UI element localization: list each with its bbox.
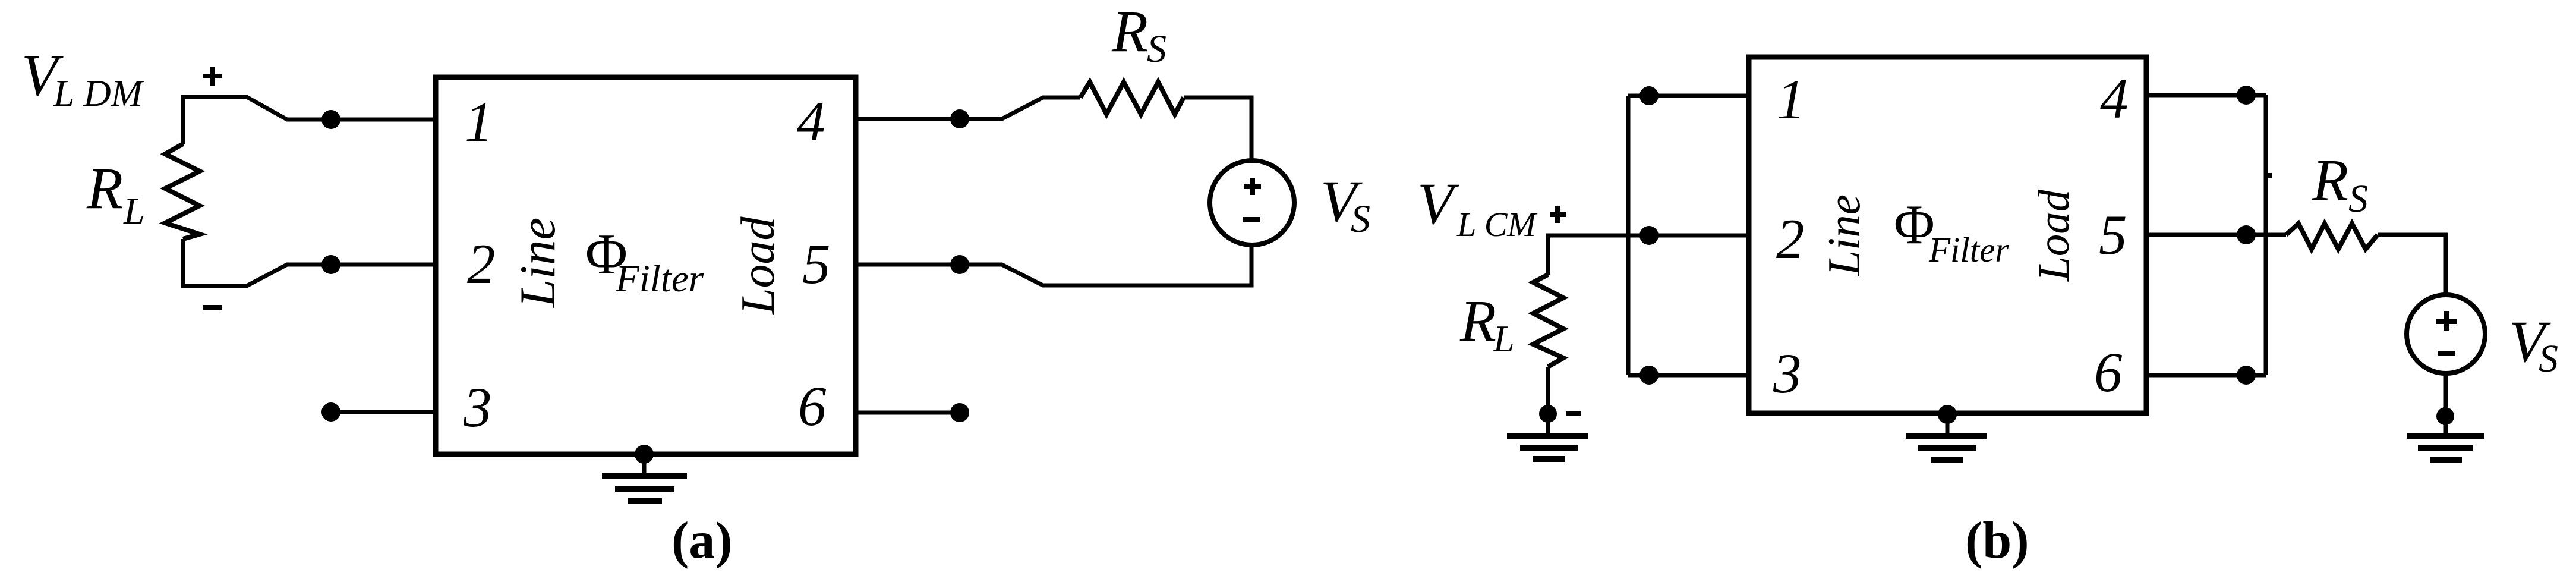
wire RS to VS top (a)	[1184, 97, 1251, 162]
svg-text:S: S	[2348, 177, 2368, 221]
ground dot VS (b)	[2436, 407, 2454, 425]
svg-text:1: 1	[1777, 68, 1805, 131]
junction dot pin 4 wire (a)	[950, 109, 969, 128]
svg-text:5: 5	[2099, 203, 2127, 266]
terminal dot pin 3 (a)	[321, 402, 340, 422]
minus sign load (a)	[203, 305, 222, 310]
junction dot pin 2 wire (b)	[1639, 226, 1659, 245]
terminal dot pin 6 (a)	[950, 403, 969, 422]
label RL (b)	[1459, 288, 1515, 360]
filter block (b)	[1749, 57, 2146, 413]
wire left bus (b)	[1626, 96, 1631, 375]
junction dot pin 2 wire (a)	[321, 255, 340, 274]
ground dot RL (b)	[1539, 405, 1557, 423]
junction dot pin 5 wire (b)	[2237, 225, 2256, 244]
wire VLCM node to pin 2 (b)	[1548, 235, 1749, 275]
svg-text:6: 6	[2094, 341, 2123, 404]
label Phi Filter (b)	[1894, 194, 2009, 269]
wire pin 1 (b)	[1628, 94, 1749, 98]
plus sign load (b)	[1550, 206, 1566, 223]
junction dot pin 6 wire (b)	[2237, 366, 2256, 385]
bus tick (b)	[2266, 173, 2272, 178]
svg-text:L: L	[123, 190, 145, 232]
wire pin 3 (b)	[1628, 373, 1749, 378]
svg-text:Load: Load	[2029, 189, 2079, 282]
svg-text:R: R	[1111, 0, 1148, 64]
svg-text:(b): (b)	[1965, 512, 2029, 570]
svg-text:L: L	[1493, 317, 1515, 360]
junction dot pin 3 wire (b)	[1639, 366, 1659, 385]
wire VS bottom to ground (b)	[2444, 373, 2448, 433]
ground of filter block (a)	[602, 445, 687, 501]
label RL (a)	[86, 155, 145, 232]
label VLCM	[1417, 171, 1537, 244]
label VS (a)	[1320, 168, 1370, 241]
svg-text:R: R	[1459, 288, 1496, 354]
svg-text:V: V	[1417, 171, 1459, 237]
ground VS (b)	[2407, 436, 2484, 460]
source VS (b)	[2407, 295, 2485, 373]
minus sign load (b)	[1566, 411, 1581, 416]
wire pin 5 to RS (b)	[2146, 233, 2286, 237]
wire pin 4 to RS (a)	[856, 97, 1080, 119]
source VS (a)	[1210, 161, 1294, 245]
wire VS bottom to pin 5 (a)	[856, 244, 1251, 285]
svg-text:S: S	[1351, 197, 1370, 241]
wire pin 6 (b)	[2146, 373, 2266, 378]
ground RL (b)	[1507, 436, 1588, 459]
ground of filter block (b)	[1906, 405, 1987, 460]
resistor RS (a)	[1080, 82, 1184, 114]
label Phi Filter (a)	[585, 222, 704, 300]
label RS (b)	[2312, 147, 2368, 221]
svg-text:Line: Line	[510, 218, 566, 308]
wire pin 3 stub (a)	[331, 410, 437, 414]
svg-text:2: 2	[467, 232, 496, 295]
svg-text:L DM: L DM	[53, 72, 145, 114]
svg-text:R: R	[2312, 147, 2348, 213]
svg-text:S: S	[1147, 27, 1166, 71]
svg-text:6: 6	[798, 375, 827, 438]
wire right bus (b)	[2264, 95, 2268, 375]
svg-text:3: 3	[463, 376, 492, 439]
svg-text:Filter: Filter	[1928, 230, 2009, 269]
wire RL bottom lead to pin 2 (a)	[183, 239, 437, 286]
junction dot pin 1 wire (a)	[321, 110, 340, 129]
junction dot pin 4 wire (b)	[2237, 86, 2256, 105]
svg-text:3: 3	[1773, 342, 1802, 405]
svg-text:Line: Line	[1818, 194, 1869, 276]
svg-text:2: 2	[1776, 207, 1805, 271]
svg-text:5: 5	[802, 232, 831, 295]
wire pin 6 stub (a)	[856, 411, 960, 415]
junction dot pin 5 wire (a)	[950, 255, 969, 274]
resistor RL (b)	[1533, 275, 1563, 367]
plus sign load (a)	[203, 67, 222, 86]
junction dot pin 1 wire (b)	[1639, 86, 1659, 105]
label VS (b)	[2509, 309, 2558, 380]
wire RS to VS top (b)	[2378, 235, 2446, 295]
wire pin 4 (b)	[2146, 93, 2266, 97]
svg-text:(a): (a)	[671, 512, 733, 570]
label VLDM	[21, 42, 145, 114]
wire RL top lead to pin 1 (a)	[183, 97, 437, 144]
label RS (a)	[1111, 0, 1166, 71]
svg-text:S: S	[2539, 337, 2558, 380]
resistor RL (a)	[165, 144, 200, 239]
wire RL bottom lead to ground (b)	[1546, 367, 1550, 433]
svg-text:R: R	[86, 155, 123, 221]
svg-text:4: 4	[2100, 67, 2129, 130]
filter block (a)	[436, 77, 856, 454]
svg-text:1: 1	[465, 90, 493, 153]
svg-text:4: 4	[797, 90, 825, 153]
svg-text:Filter: Filter	[615, 257, 704, 300]
resistor RS (b)	[2286, 224, 2378, 249]
svg-text:Load: Load	[732, 216, 784, 315]
svg-text:L CM: L CM	[1456, 205, 1537, 244]
